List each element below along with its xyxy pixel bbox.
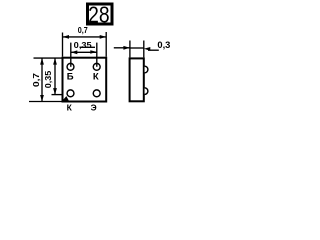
dim 0.3 extension line right <box>143 41 145 58</box>
left dim 0.7 dimension line <box>41 58 43 101</box>
top dim 0.7 extension line left <box>62 33 64 57</box>
main body outline (front view) <box>63 58 107 102</box>
top dim 0.35 underline <box>80 46 96 48</box>
side view lower lead bump <box>145 88 148 95</box>
svg-text:0,7: 0,7 <box>78 26 88 35</box>
svg-text:0,35: 0,35 <box>74 41 93 50</box>
svg-text:0,7: 0,7 <box>32 72 41 87</box>
side view body outline <box>130 58 144 101</box>
dim 0.3 extension line left <box>129 41 131 58</box>
top dim 0.35 dimension line <box>71 51 97 53</box>
pad B (top-left) <box>67 63 74 70</box>
left dim 0.35 dimension line <box>54 58 56 95</box>
pad E (bottom-right) <box>93 90 100 97</box>
svg-text:0,3: 0,3 <box>157 40 170 51</box>
svg-text:0,35: 0,35 <box>44 70 53 88</box>
svg-text:К: К <box>93 72 99 83</box>
pad K (bottom-left) <box>67 90 74 97</box>
pin-1 corner key mark <box>62 96 69 101</box>
pad K (top-right) <box>93 63 100 70</box>
dim 0.3 right outside arrow with tail <box>148 49 159 51</box>
svg-text:Б: Б <box>67 72 74 83</box>
top dim 0.7 dimension line <box>63 36 107 38</box>
top dim 0.7 extension line right <box>105 32 107 57</box>
svg-text:28: 28 <box>88 2 110 28</box>
top dim 0.35 extension/centre line left through pad <box>70 43 72 67</box>
figure number box 28 <box>88 2 113 28</box>
svg-text:Э: Э <box>91 103 97 113</box>
left dims: bottom extension line <box>29 101 62 103</box>
left dims: top extension line <box>34 57 63 59</box>
left dims: mid extension line at lower pad centre <box>52 94 63 96</box>
dim 0.3 dimension line <box>130 47 144 49</box>
top dim 0.35 extension/centre line right through pad <box>96 43 98 67</box>
side view upper lead bump <box>145 66 148 73</box>
svg-text:К: К <box>67 103 73 113</box>
dim 0.3 left outside arrow <box>114 47 130 49</box>
